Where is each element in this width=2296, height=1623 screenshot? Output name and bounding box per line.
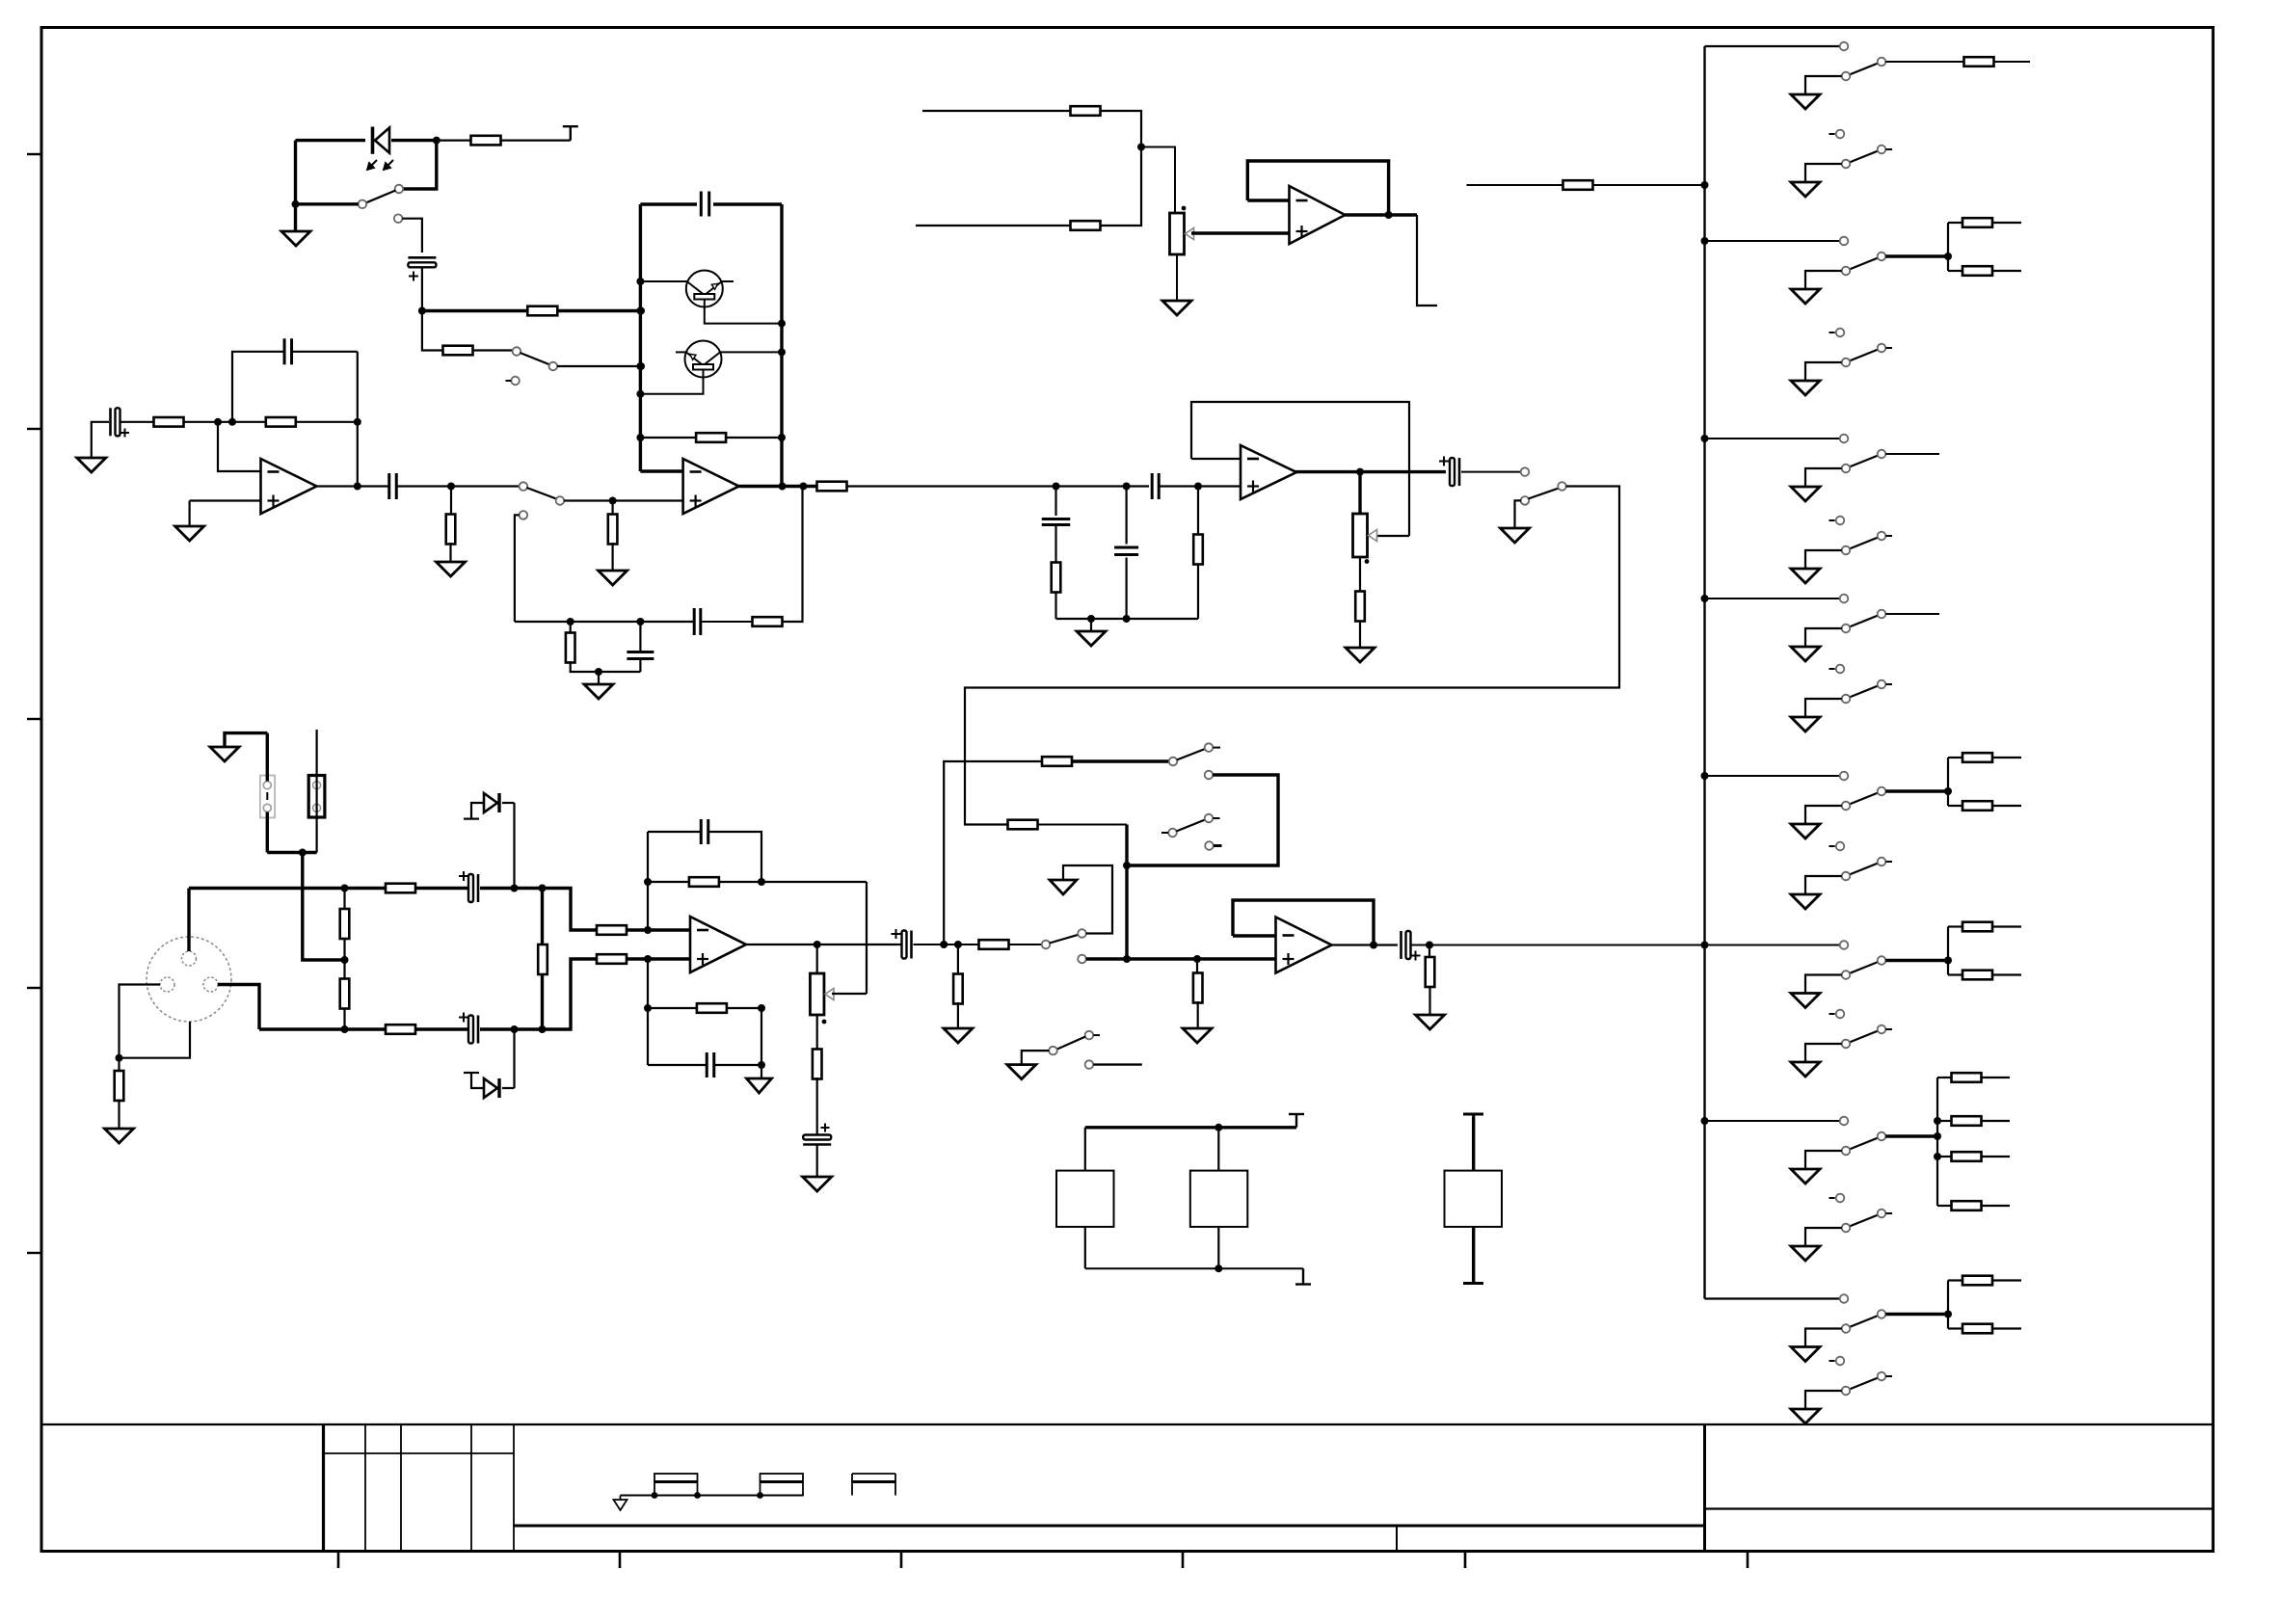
switch S1 throw 2 contact (394, 214, 403, 223)
resistor R22 (597, 925, 627, 935)
wire (1233, 900, 1374, 945)
resistor S20Ra (1962, 922, 1992, 932)
node (1701, 237, 1709, 245)
switch S8 lever (1056, 1037, 1085, 1050)
resistor R15 (1008, 820, 1038, 830)
wire (1515, 500, 1522, 528)
resistor R29 (1193, 973, 1203, 1003)
wire (965, 487, 1619, 825)
node (1385, 211, 1393, 219)
title block column line (513, 1424, 515, 1552)
capacitor C8 (1114, 547, 1138, 555)
switch S13 nc contact (1829, 329, 1845, 337)
node (779, 483, 787, 491)
wire (502, 802, 515, 804)
wire (1948, 1279, 1962, 1281)
switch S18 pole contact (1842, 802, 1851, 811)
node (644, 926, 652, 934)
wire (647, 959, 649, 1065)
resistor R24 (689, 877, 719, 887)
wire (727, 1007, 761, 1009)
wire (1982, 1156, 2011, 1157)
potentiometer P2 (810, 973, 834, 1015)
node (652, 1492, 658, 1499)
title block right divider (1703, 1424, 1706, 1552)
wire (1805, 468, 1842, 487)
node (1426, 942, 1433, 949)
wire (1191, 231, 1290, 234)
wire (557, 365, 641, 367)
switch S3 pole contact (520, 482, 528, 491)
switch S2 lever (521, 353, 549, 364)
wire (1805, 1228, 1842, 1246)
terminal T5 (1463, 1282, 1483, 1285)
terminal stub (464, 1072, 479, 1074)
wire (1125, 487, 1127, 545)
wire (1593, 184, 1705, 186)
wire (1375, 535, 1409, 537)
wire (1197, 487, 1199, 536)
switch S20 input contact (1840, 941, 1849, 949)
wire (746, 944, 902, 945)
wire (816, 945, 818, 973)
switch S20 throw contact (1878, 956, 1886, 965)
node (644, 878, 652, 886)
XLR pin 2 (182, 951, 197, 966)
node (636, 618, 644, 625)
ground (1791, 381, 1820, 395)
wire (267, 851, 316, 854)
capacitor C4 (284, 338, 292, 364)
resistor S24Rb (1962, 1324, 1992, 1334)
wire (640, 469, 682, 472)
wire (914, 944, 980, 945)
switch S15 lever (1850, 538, 1879, 549)
resistor R26 (813, 1050, 822, 1079)
wire (957, 1002, 959, 1028)
node (814, 941, 821, 948)
capacitor C18 (1042, 519, 1071, 525)
wire (450, 487, 452, 517)
switch S8 pole contact (1049, 1047, 1057, 1055)
resistor R4 (696, 433, 726, 442)
wire (1937, 1120, 1952, 1122)
wire (648, 1007, 697, 1009)
node (447, 483, 455, 491)
switch S18 lever (1850, 793, 1879, 805)
wire (1805, 550, 1842, 569)
resistor R34 (1563, 180, 1593, 190)
switch S21 pole contact (1842, 1040, 1851, 1049)
switch S5 throw contact (1078, 929, 1086, 938)
switch S18 throw contact (1878, 787, 1886, 796)
node (1934, 1117, 1941, 1125)
wire (571, 661, 641, 672)
node (595, 668, 602, 676)
wire (1359, 621, 1361, 649)
title block small vertical (1396, 1526, 1398, 1552)
title block top line (41, 1423, 2213, 1425)
resistor R20 (386, 1024, 415, 1034)
wire (916, 225, 1070, 226)
capacitor C1 (408, 257, 436, 280)
wire (1358, 472, 1361, 514)
node (1193, 955, 1201, 963)
wire (1125, 558, 1127, 620)
node (354, 418, 361, 426)
wire (1331, 944, 1398, 945)
resistor R32 (1071, 106, 1101, 116)
wire (232, 421, 266, 423)
wire (1084, 1128, 1086, 1171)
resistor R23 (597, 954, 627, 964)
resistor R3 (443, 346, 473, 356)
wire (1055, 487, 1056, 517)
wire (1805, 1391, 1842, 1409)
resistor S22Rb (1952, 1116, 1982, 1126)
wire (640, 202, 697, 205)
switch S12 lever (1850, 258, 1879, 270)
wire (640, 377, 703, 394)
switch S19 pole contact (1842, 872, 1851, 881)
title block thick divider left (322, 1424, 325, 1552)
node (1701, 435, 1709, 442)
switch S6 throw contact (1205, 743, 1220, 752)
wire (449, 543, 451, 562)
jumper JP2 pin (313, 804, 321, 811)
switch S20 pole contact (1842, 971, 1851, 979)
diode D2 (484, 1078, 499, 1098)
wire (1948, 973, 1962, 975)
ground (281, 231, 310, 246)
wire (480, 1027, 543, 1030)
wire (343, 1008, 345, 1029)
node (1370, 942, 1377, 949)
box K1 (1056, 1171, 1114, 1227)
node (609, 497, 617, 505)
wire (120, 421, 153, 423)
wire (705, 306, 782, 324)
wire (1705, 240, 1840, 242)
wire (1412, 945, 1705, 946)
wire (402, 219, 422, 253)
ground (437, 562, 466, 576)
wire (1885, 254, 1948, 257)
node (1123, 615, 1131, 623)
terminal stub (464, 817, 479, 819)
node (1137, 144, 1145, 151)
switch S6 pole contact (1169, 758, 1178, 766)
capacitor C15 (803, 1124, 831, 1145)
wire (187, 889, 190, 952)
node (1701, 772, 1709, 780)
wire (1084, 1227, 1086, 1268)
wire (1055, 592, 1056, 619)
wire (564, 499, 683, 501)
ground (1791, 1347, 1820, 1362)
wire (639, 622, 641, 652)
wire (1992, 925, 2021, 927)
switch S1 throw contact (395, 185, 404, 194)
switch S7 throw 2 contact (1205, 841, 1221, 850)
switch S24 lever (1850, 1316, 1879, 1327)
wire (403, 141, 437, 189)
wire (343, 889, 345, 911)
wire (639, 659, 641, 673)
resistor R7 (446, 515, 456, 545)
wire (944, 761, 1042, 945)
wire (1982, 1120, 2011, 1122)
wire (1359, 557, 1361, 592)
wire (1472, 1117, 1475, 1171)
ground (77, 458, 106, 472)
wire (232, 352, 284, 422)
wire (648, 831, 701, 833)
op-amp U4 (1276, 918, 1332, 973)
wire (1247, 161, 1388, 215)
capacitor C12 (459, 1013, 478, 1044)
wire (1992, 1279, 2021, 1281)
wire (266, 792, 268, 800)
node (1087, 615, 1095, 623)
node (636, 362, 644, 370)
switch S2 throw 2 contact (506, 377, 520, 386)
resistor R2 (527, 306, 557, 316)
node (341, 1025, 349, 1033)
resistor R14 (1355, 592, 1365, 622)
wire (1093, 1063, 1141, 1065)
wire (648, 1064, 707, 1066)
wire (357, 352, 359, 487)
ground (105, 1129, 134, 1143)
resistor R1 (437, 136, 571, 146)
switch S16 throw contact (1878, 610, 1886, 619)
node (1123, 483, 1131, 491)
resistor S22Ra (1952, 1073, 1982, 1082)
wire (1197, 564, 1199, 619)
switch S8 throw contact (1085, 1031, 1100, 1040)
wire (1805, 362, 1842, 381)
switch S2 pole contact (513, 347, 521, 356)
wire (471, 1073, 484, 1088)
node (1944, 1311, 1952, 1318)
switch S21 throw contact (1878, 1025, 1892, 1034)
node (214, 418, 222, 426)
LED arrows (367, 160, 393, 170)
switch S15 throw contact (1878, 532, 1892, 541)
wire (294, 141, 297, 231)
op-amp U1 (261, 459, 317, 514)
switch S5 lever (1050, 935, 1079, 944)
switch S10 pole contact (1842, 72, 1851, 81)
resistor S12Ra (1962, 218, 1992, 227)
wire (816, 1146, 818, 1178)
wire (343, 938, 345, 979)
wire (761, 881, 867, 883)
terminal T1 (563, 126, 578, 140)
wire (816, 1078, 818, 1135)
ground (1416, 1015, 1445, 1029)
wire (513, 1029, 515, 1088)
wire (639, 204, 642, 471)
wire (1948, 222, 1962, 224)
wire (816, 1015, 818, 1051)
wire (543, 889, 598, 931)
wire (611, 501, 613, 517)
wire (1947, 1281, 1949, 1329)
wire (1467, 184, 1564, 186)
wire (721, 280, 734, 282)
switch S15 pole contact (1842, 546, 1851, 555)
ground (1791, 894, 1820, 909)
resistor S18Ra (1962, 753, 1992, 762)
transistor Q2 (685, 341, 722, 378)
ground (1791, 487, 1820, 501)
wire (1994, 61, 2031, 63)
wire (648, 881, 689, 883)
node (636, 307, 644, 315)
node (433, 137, 441, 145)
ground (1791, 824, 1820, 838)
node (636, 278, 644, 285)
wire (1176, 254, 1178, 301)
op-amp U5 (1241, 445, 1296, 499)
wire (1101, 111, 1142, 147)
switch S25 lever (1850, 1378, 1879, 1390)
jack J2 (761, 1474, 804, 1496)
wire (1947, 927, 1949, 975)
wire (1072, 759, 1169, 762)
bus wire (1703, 46, 1705, 1299)
wire (1705, 1120, 1840, 1122)
switch S19 throw contact (1878, 858, 1892, 866)
node (1701, 942, 1709, 949)
ground (1077, 631, 1106, 646)
node (940, 941, 948, 948)
node (636, 434, 644, 441)
node (228, 418, 236, 426)
node (637, 362, 645, 370)
node (1123, 862, 1131, 869)
potentiometer P3 (1170, 213, 1194, 254)
ground (1346, 648, 1375, 662)
wire (218, 985, 259, 1030)
XLR connector J4 (147, 937, 231, 1022)
resistor R18 (340, 909, 350, 939)
switch S10 lever (1850, 64, 1879, 75)
wire (1805, 806, 1842, 824)
ground (1791, 717, 1820, 732)
wire (118, 1100, 120, 1129)
switch S23 throw contact (1878, 1210, 1892, 1218)
wire (1947, 758, 1949, 806)
switch S7 lever (1176, 820, 1205, 832)
switch S14 lever (1850, 456, 1879, 467)
switch S12 throw contact (1878, 253, 1886, 261)
switch S23 nc contact (1829, 1194, 1845, 1203)
ground (1791, 1062, 1820, 1077)
title block column line (364, 1424, 366, 1552)
node (778, 320, 786, 328)
capacitor C13 (701, 819, 708, 844)
switch S6 throw 2 contact (1205, 771, 1214, 780)
pot marker (1182, 206, 1187, 211)
node (539, 1025, 547, 1033)
box K2 (1190, 1171, 1248, 1227)
XLR pin 1 (160, 977, 174, 992)
ground (210, 747, 239, 761)
left border tick marks (27, 154, 42, 1253)
ground (1791, 994, 1820, 1008)
wire (1948, 925, 1962, 927)
switch S3 throw 2 contact (520, 511, 528, 519)
resistor R33 (1071, 221, 1101, 230)
jumper JP2 (308, 776, 325, 818)
wire (761, 1065, 762, 1078)
switch S11 lever (1850, 151, 1879, 163)
ground (1007, 1065, 1036, 1079)
switch S13 pole contact (1842, 359, 1851, 367)
wire (1217, 1227, 1219, 1268)
wire (1948, 270, 1962, 272)
wire (515, 621, 571, 623)
capacitor C9 (1152, 473, 1159, 499)
wire (708, 832, 761, 882)
node (644, 955, 652, 963)
node (354, 483, 361, 491)
resistor S18Rb (1962, 801, 1992, 811)
wire (1992, 757, 2021, 758)
wire (1085, 1267, 1303, 1269)
wire (739, 485, 817, 488)
wire (513, 803, 515, 889)
switch S25 nc contact (1829, 1357, 1845, 1366)
switch S12 input contact (1840, 237, 1849, 246)
switch S14 pole contact (1842, 465, 1851, 473)
terminal T2 (1289, 1114, 1304, 1128)
wire (866, 882, 868, 994)
node (1944, 957, 1952, 965)
node (539, 885, 547, 892)
jumper JP1 pin (263, 782, 271, 789)
wire (832, 993, 867, 995)
wire (640, 437, 696, 439)
wire (1086, 957, 1276, 960)
wire (571, 621, 641, 623)
ground (1791, 289, 1820, 304)
wire (1805, 876, 1842, 894)
wire (1141, 147, 1175, 214)
switch S25 pole contact (1842, 1387, 1851, 1396)
switch S24 pole contact (1842, 1324, 1851, 1333)
node (799, 483, 807, 491)
switch S3 lever (527, 488, 557, 499)
jumper JP1 pin (263, 804, 271, 811)
wire (598, 672, 600, 684)
switch S13 lever (1850, 350, 1879, 361)
wire (640, 621, 694, 623)
wire (1472, 1227, 1475, 1284)
wire (1805, 1329, 1842, 1347)
wire (421, 268, 423, 311)
wire (557, 309, 641, 312)
wire (1090, 619, 1092, 631)
wire (502, 1087, 515, 1089)
wire (1805, 164, 1842, 182)
wire (1127, 775, 1278, 865)
switch S15 nc contact (1829, 517, 1845, 525)
node (418, 307, 426, 315)
